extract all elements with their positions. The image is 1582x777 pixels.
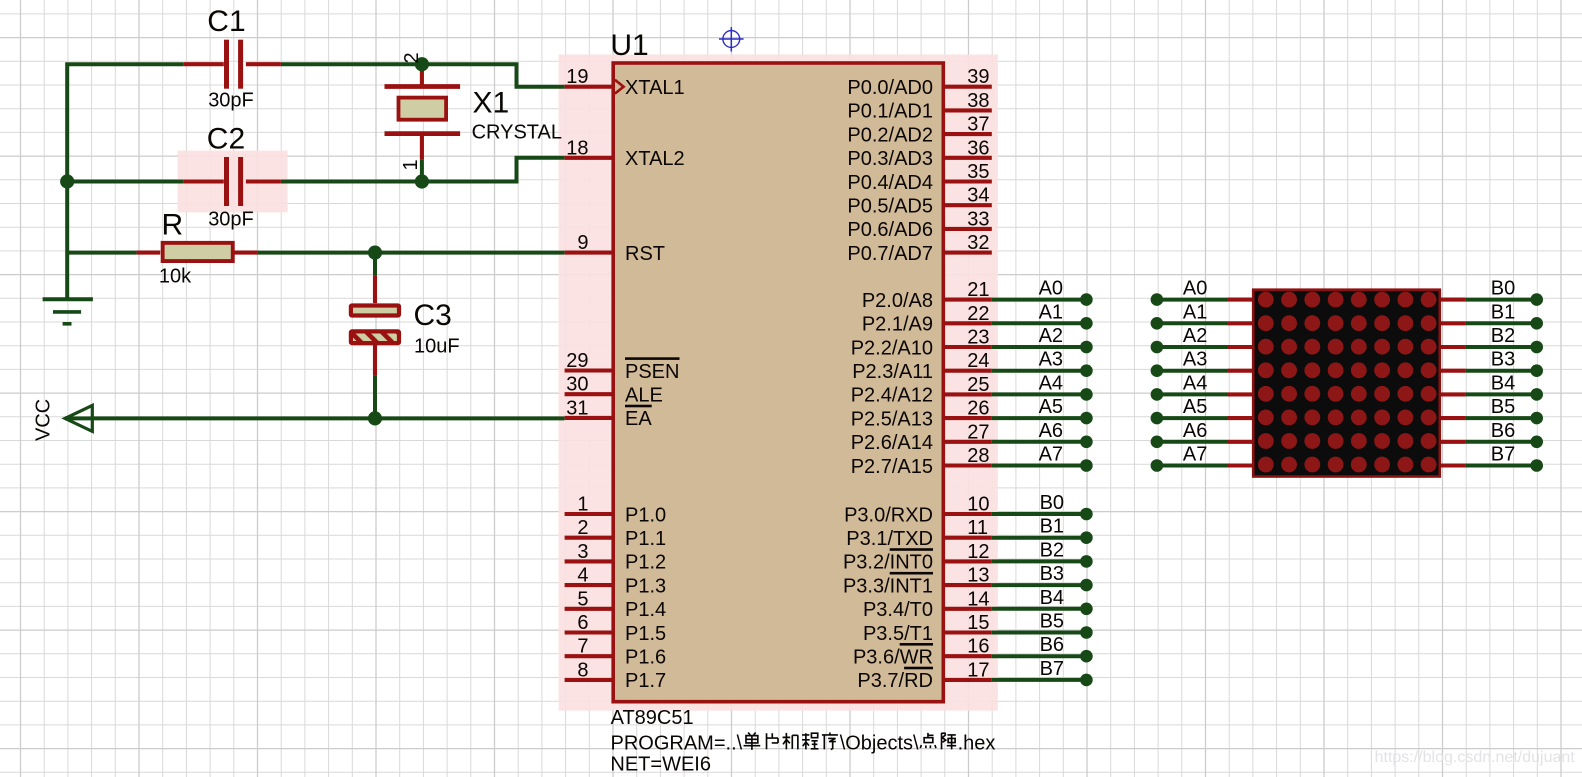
svg-text:PROGRAM=..\: PROGRAM=..\ <box>611 733 743 755</box>
svg-text:A5: A5 <box>1183 396 1207 418</box>
svg-text:2: 2 <box>577 517 588 539</box>
svg-text:https://blog.csdn.net/dujuant: https://blog.csdn.net/dujuant <box>1375 749 1576 766</box>
svg-text:17: 17 <box>967 659 989 681</box>
svg-text:B3: B3 <box>1040 563 1064 585</box>
svg-text:P1.4: P1.4 <box>625 599 666 621</box>
svg-text:P3.0/RXD: P3.0/RXD <box>844 504 933 526</box>
svg-text:21: 21 <box>967 279 989 301</box>
svg-text:A7: A7 <box>1183 444 1207 466</box>
svg-text:B1: B1 <box>1491 301 1515 323</box>
svg-text:B6: B6 <box>1491 420 1515 442</box>
svg-text:A1: A1 <box>1039 301 1063 323</box>
svg-text:A4: A4 <box>1039 372 1063 394</box>
svg-text:30pF: 30pF <box>208 90 254 112</box>
svg-text:EA: EA <box>625 408 652 430</box>
svg-text:B6: B6 <box>1040 634 1064 656</box>
svg-text:P2.5/A13: P2.5/A13 <box>851 408 933 430</box>
svg-text:P0.4/AD4: P0.4/AD4 <box>847 172 933 194</box>
svg-text:P2.4/A12: P2.4/A12 <box>851 385 933 407</box>
svg-text:P0.2/AD2: P0.2/AD2 <box>847 124 933 146</box>
svg-text:24: 24 <box>967 350 989 372</box>
svg-text:19: 19 <box>566 66 588 88</box>
svg-text:39: 39 <box>967 66 989 88</box>
svg-text:B7: B7 <box>1040 658 1064 680</box>
svg-text:P3.3/INT1: P3.3/INT1 <box>843 575 933 597</box>
svg-text:P3.5/T1: P3.5/T1 <box>863 623 933 645</box>
svg-text:R: R <box>162 209 184 242</box>
svg-text:P3.6/WR: P3.6/WR <box>853 647 933 669</box>
svg-text:B0: B0 <box>1040 492 1064 514</box>
svg-text:36: 36 <box>967 137 989 159</box>
svg-text:9: 9 <box>577 232 588 254</box>
svg-text:2: 2 <box>401 52 423 63</box>
svg-text:34: 34 <box>967 185 989 207</box>
svg-text:X1: X1 <box>473 87 510 120</box>
svg-text:1: 1 <box>400 159 422 170</box>
svg-text:A7: A7 <box>1039 444 1063 466</box>
svg-text:B7: B7 <box>1491 444 1515 466</box>
svg-text:1: 1 <box>577 494 588 516</box>
svg-text:10uF: 10uF <box>414 336 460 358</box>
svg-text:P0.3/AD3: P0.3/AD3 <box>847 148 933 170</box>
svg-text:14: 14 <box>967 588 989 610</box>
svg-text:P1.6: P1.6 <box>625 647 666 669</box>
svg-text:A6: A6 <box>1039 420 1063 442</box>
svg-text:A5: A5 <box>1039 396 1063 418</box>
svg-text:P1.3: P1.3 <box>625 575 666 597</box>
svg-text:P3.2/INT0: P3.2/INT0 <box>843 552 933 574</box>
svg-text:5: 5 <box>577 588 588 610</box>
svg-text:B2: B2 <box>1491 325 1515 347</box>
svg-text:P0.0/AD0: P0.0/AD0 <box>847 77 933 99</box>
svg-text:7: 7 <box>577 636 588 658</box>
svg-text:22: 22 <box>967 303 989 325</box>
svg-text:P3.7/RD: P3.7/RD <box>857 670 933 692</box>
svg-text:6: 6 <box>577 612 588 634</box>
svg-text:B4: B4 <box>1491 372 1515 394</box>
svg-text:VCC: VCC <box>33 399 55 441</box>
svg-text:XTAL1: XTAL1 <box>625 77 685 99</box>
svg-text:P2.7/A15: P2.7/A15 <box>851 456 933 478</box>
svg-text:B5: B5 <box>1491 396 1515 418</box>
svg-text:35: 35 <box>967 161 989 183</box>
svg-text:8: 8 <box>577 659 588 681</box>
svg-text:ALE: ALE <box>625 385 663 407</box>
svg-text:P2.3/A11: P2.3/A11 <box>852 361 933 383</box>
svg-text:AT89C51: AT89C51 <box>611 707 694 729</box>
svg-text:P2.0/A8: P2.0/A8 <box>862 290 933 312</box>
svg-text:RST: RST <box>625 243 665 265</box>
svg-text:30: 30 <box>566 374 588 396</box>
svg-text:38: 38 <box>967 90 989 112</box>
svg-text:P3.4/T0: P3.4/T0 <box>863 599 933 621</box>
svg-text:P0.6/AD6: P0.6/AD6 <box>847 219 933 241</box>
svg-text:C3: C3 <box>414 299 452 332</box>
svg-text:15: 15 <box>967 612 989 634</box>
svg-text:P0.7/AD7: P0.7/AD7 <box>847 243 933 265</box>
svg-text:C1: C1 <box>207 5 245 38</box>
svg-text:A1: A1 <box>1183 301 1207 323</box>
svg-text:B2: B2 <box>1040 539 1064 561</box>
svg-text:B5: B5 <box>1040 611 1064 633</box>
svg-text:18: 18 <box>566 137 588 159</box>
svg-text:3: 3 <box>577 541 588 563</box>
svg-text:27: 27 <box>967 421 989 443</box>
svg-text:29: 29 <box>566 350 588 372</box>
svg-text:B3: B3 <box>1491 349 1515 371</box>
svg-text:A3: A3 <box>1039 349 1063 371</box>
svg-text:P1.1: P1.1 <box>625 528 666 550</box>
svg-text:10: 10 <box>967 494 989 516</box>
svg-text:CRYSTAL: CRYSTAL <box>472 122 562 144</box>
svg-text:13: 13 <box>967 565 989 587</box>
svg-text:33: 33 <box>967 208 989 230</box>
svg-text:4: 4 <box>577 565 588 587</box>
svg-text:U1: U1 <box>610 29 648 62</box>
svg-text:A3: A3 <box>1183 349 1207 371</box>
svg-text:P0.1/AD1: P0.1/AD1 <box>847 101 933 123</box>
svg-text:A0: A0 <box>1183 278 1207 300</box>
svg-text:12: 12 <box>967 541 989 563</box>
svg-text:C2: C2 <box>207 122 245 155</box>
svg-text:P2.1/A9: P2.1/A9 <box>862 314 933 336</box>
svg-text:.hex: .hex <box>958 733 996 755</box>
svg-text:28: 28 <box>967 445 989 467</box>
svg-text:A2: A2 <box>1039 325 1063 347</box>
svg-text:P1.2: P1.2 <box>625 552 666 574</box>
svg-text:A4: A4 <box>1183 372 1207 394</box>
svg-text:PSEN: PSEN <box>625 361 679 383</box>
svg-text:16: 16 <box>967 636 989 658</box>
svg-text:A2: A2 <box>1183 325 1207 347</box>
svg-text:32: 32 <box>967 232 989 254</box>
svg-text:B1: B1 <box>1040 516 1064 538</box>
svg-text:11: 11 <box>967 517 988 539</box>
svg-text:26: 26 <box>967 398 989 420</box>
svg-text:P1.5: P1.5 <box>625 623 666 645</box>
svg-text:A6: A6 <box>1183 420 1207 442</box>
svg-text:30pF: 30pF <box>208 208 254 230</box>
svg-text:\Objects\: \Objects\ <box>840 733 919 755</box>
svg-text:P1.7: P1.7 <box>625 670 666 692</box>
svg-text:10k: 10k <box>159 266 192 288</box>
svg-text:P3.1/TXD: P3.1/TXD <box>846 528 933 550</box>
svg-text:B0: B0 <box>1491 278 1515 300</box>
svg-text:B4: B4 <box>1040 587 1064 609</box>
svg-text:NET=WEI6: NET=WEI6 <box>610 754 711 776</box>
svg-text:XTAL2: XTAL2 <box>625 148 685 170</box>
svg-text:25: 25 <box>967 374 989 396</box>
svg-text:P1.0: P1.0 <box>625 504 666 526</box>
svg-text:31: 31 <box>566 397 588 419</box>
svg-text:P2.6/A14: P2.6/A14 <box>851 432 933 454</box>
svg-text:A0: A0 <box>1039 278 1063 300</box>
svg-text:23: 23 <box>967 327 989 349</box>
svg-text:P2.2/A10: P2.2/A10 <box>851 337 933 359</box>
svg-text:37: 37 <box>967 114 989 136</box>
svg-text:P0.5/AD5: P0.5/AD5 <box>847 196 933 218</box>
